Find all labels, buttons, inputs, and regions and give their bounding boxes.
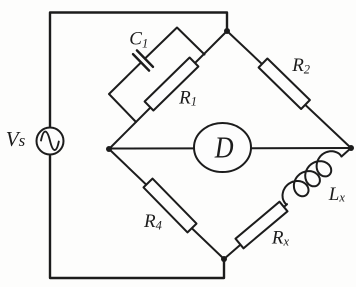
svg-text:R2: R2: [291, 55, 310, 77]
capacitor C1 plate 2: [137, 50, 153, 67]
wire: C1 branch left segment: [109, 62, 141, 122]
capacitor C1 plate 1: [133, 54, 149, 71]
node: top junction dot: [224, 28, 230, 34]
wire: R4 branch diagonal: [109, 149, 224, 259]
svg-text:C1: C1: [129, 28, 148, 50]
wire: bottom loop from source Vs to bottom node: [50, 155, 224, 279]
sine symbol inside Vs: [41, 132, 59, 151]
detector D circle: [194, 123, 251, 172]
svg-text:Rx: Rx: [271, 228, 290, 249]
resistor R1: [145, 58, 199, 111]
inductor Lx coil: [283, 151, 342, 204]
svg-text:R4: R4: [143, 211, 162, 233]
wire: coil end to right node: [342, 148, 352, 157]
node: bottom junction dot: [221, 256, 227, 262]
resistor R2: [259, 59, 310, 110]
svg-text:R1: R1: [178, 87, 197, 108]
resistor R4: [144, 179, 197, 233]
wire: top loop from source Vs to top node: [50, 13, 227, 129]
wire: C1 branch right segment: [145, 28, 205, 59]
svg-text:Lx: Lx: [328, 184, 346, 205]
svg-text:D: D: [214, 131, 234, 166]
wire: R2 branch diagonal: [227, 31, 351, 148]
node: left junction dot: [106, 146, 112, 152]
wire: Rx branch lower diagonal: [224, 204, 287, 259]
wire: left node to right node through detector: [109, 147, 351, 150]
resistor Rx: [236, 202, 288, 249]
svg-text:Vs: Vs: [6, 127, 26, 151]
source Vs circle: [37, 128, 64, 155]
node: right junction dot: [348, 145, 354, 151]
wire: R1 branch diagonal: [109, 31, 227, 149]
